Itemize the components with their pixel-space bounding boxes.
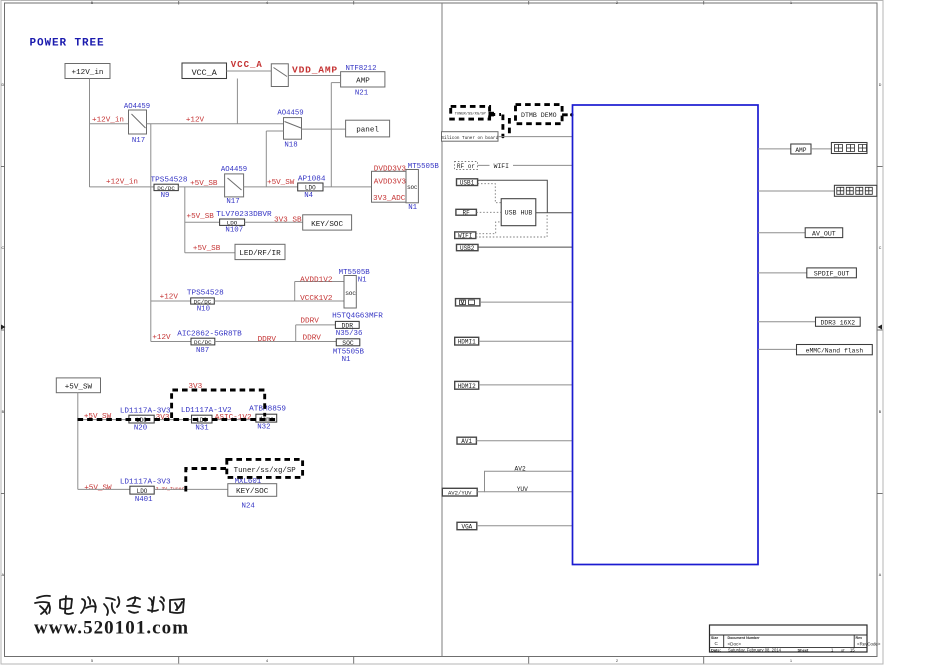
svg-text:AVDD3V3: AVDD3V3 — [374, 179, 407, 187]
chip N32 ATBM8859 demo — [249, 406, 286, 432]
regulator N87 AIC2862-5GR8TB DC/DC — [177, 331, 242, 355]
wire LAN — [480, 301, 573, 303]
svg-text:panel: panel — [356, 126, 379, 134]
wire +5V_SB branch rail — [185, 187, 235, 253]
block AV_OUT — [805, 228, 843, 238]
port AV1 — [457, 437, 476, 445]
wire WIFI dotted — [476, 222, 501, 234]
block SPDIF_OUT — [807, 268, 857, 278]
svg-text:Size: Size — [711, 636, 718, 640]
block speaker — [831, 143, 867, 154]
svg-text:A: A — [879, 573, 882, 577]
wire AVDD1V2 branch — [295, 282, 345, 302]
svg-text:KEY/SOC: KEY/SOC — [311, 221, 343, 229]
wire VGA — [477, 525, 573, 527]
wire +5V_SW row — [78, 419, 256, 421]
wire to eMMC — [758, 348, 797, 350]
svg-text:N17: N17 — [132, 137, 145, 145]
center fold marks — [1, 325, 6, 330]
svg-text:5: 5 — [91, 659, 93, 663]
svg-text:N21: N21 — [355, 90, 369, 98]
svg-text:TLV70233DBVR: TLV70233DBVR — [216, 211, 272, 219]
port VCC_A — [182, 63, 227, 79]
svg-text:www.520101.com: www.520101.com — [34, 618, 189, 639]
block Tuner/ss/xg/SP highlight — [227, 459, 303, 477]
svg-text:KEY/SOC: KEY/SOC — [236, 488, 269, 496]
svg-text:LD1117A-3V3: LD1117A-3V3 — [120, 478, 171, 486]
wire N18 to panel — [302, 128, 346, 130]
svg-text:VCC_A: VCC_A — [192, 68, 218, 78]
svg-text:B: B — [879, 410, 882, 414]
port +5V_SW — [56, 378, 100, 393]
wire HDMI1 — [479, 340, 573, 342]
svg-text:RF: RF — [462, 209, 470, 216]
svg-text:15: 15 — [850, 647, 855, 652]
svg-text:VCC_A: VCC_A — [231, 60, 263, 70]
svg-text:C: C — [715, 641, 719, 646]
svg-text:3V3_SB: 3V3_SB — [274, 217, 302, 225]
svg-text:C: C — [879, 246, 882, 250]
wire +12V — [147, 123, 284, 125]
port HDMI2 — [455, 381, 479, 389]
port USB2 — [457, 244, 479, 252]
svg-text:N31: N31 — [195, 425, 209, 433]
wire AV1 — [476, 440, 572, 442]
svg-text:N35/36: N35/36 — [336, 330, 363, 338]
svg-text:LDO: LDO — [137, 488, 148, 495]
svg-text:AP1084: AP1084 — [298, 175, 326, 183]
wire to AMP — [288, 75, 340, 77]
wire DDRV — [215, 341, 336, 343]
wire +5V_SW — [244, 186, 298, 188]
node RF or — [455, 162, 478, 171]
chip SOC3 MT5505B N1 — [333, 339, 365, 364]
svg-text:AMP: AMP — [356, 78, 370, 86]
svg-text:+12V_in: +12V_in — [72, 69, 104, 77]
svg-text:DC/DC: DC/DC — [194, 298, 212, 305]
svg-text:AO4459: AO4459 — [277, 110, 303, 118]
svg-text:+5V_SW: +5V_SW — [267, 179, 295, 187]
wire to N9 — [90, 186, 155, 188]
transistor VDD_AMP switch — [271, 64, 288, 87]
block DDR3 16X2 — [816, 317, 861, 326]
wire USB1 — [478, 180, 548, 212]
wire +5V_SW highlight — [78, 418, 278, 421]
chip main SoC block — [573, 105, 759, 565]
wire +12V_in vertical rail — [89, 79, 91, 188]
chip SOC MT5505B N1 — [372, 163, 440, 212]
wire to headphone — [758, 190, 834, 192]
regulator N4 AP1084 LDO — [298, 175, 326, 200]
svg-text:AO4459: AO4459 — [221, 166, 247, 174]
svg-text:eMMC/Nand flash: eMMC/Nand flash — [806, 347, 864, 354]
svg-text:DDR3 16X2: DDR3 16X2 — [821, 319, 856, 326]
svg-text:N87: N87 — [196, 347, 209, 355]
svg-text:DC/DC: DC/DC — [157, 185, 175, 192]
svg-text:POWER TREE: POWER TREE — [30, 38, 105, 50]
svg-text:USB1: USB1 — [460, 180, 475, 187]
svg-text:1: 1 — [790, 659, 792, 663]
block Silicon Tuner on board — [441, 132, 498, 142]
svg-text:YUV: YUV — [517, 486, 528, 493]
svg-text:2: 2 — [616, 659, 618, 663]
svg-text:SOC: SOC — [342, 340, 354, 347]
svg-text:+5V_SB: +5V_SB — [190, 180, 218, 188]
svg-text:TPS54528: TPS54528 — [187, 289, 224, 297]
regulator N20 LD1117A-3V3 LDO — [120, 408, 171, 433]
svg-text:HDMI1: HDMI1 — [458, 339, 476, 346]
wire to Q N17a — [90, 123, 129, 125]
wire USB2 — [478, 246, 573, 248]
svg-text:+12V: +12V — [152, 334, 171, 342]
wire USB HUB out — [536, 212, 573, 214]
wire to DDR3 — [758, 321, 816, 323]
svg-text:SPDIF_OUT: SPDIF_OUT — [814, 270, 850, 277]
svg-text:DDRV: DDRV — [300, 318, 319, 326]
svg-text:5: 5 — [91, 1, 93, 5]
wire VCCK1V2 — [214, 300, 344, 302]
svg-text:N18: N18 — [284, 141, 297, 149]
svg-text:AV1: AV1 — [461, 438, 472, 445]
block KEY/SOC — [303, 215, 352, 230]
svg-text:C: C — [1, 246, 4, 250]
block DTMB DEMO highlight — [516, 105, 574, 124]
wire tuner highlight connector — [186, 469, 227, 492]
svg-text:DDRV: DDRV — [302, 334, 321, 342]
svg-text:1: 1 — [790, 1, 792, 5]
wire to N401 — [78, 488, 130, 490]
svg-text:AIC2862-5GR8TB: AIC2862-5GR8TB — [177, 331, 242, 339]
wire to N10 — [151, 300, 191, 302]
svg-text:LDO: LDO — [227, 220, 238, 227]
svg-text:N32: N32 — [257, 423, 270, 431]
svg-text:+12V_in: +12V_in — [106, 178, 138, 186]
svg-text:N1: N1 — [358, 276, 367, 284]
regulator N107 TLV70233DBVR LDO — [216, 211, 272, 235]
svg-text:DDRV: DDRV — [258, 336, 277, 344]
svg-text:DC/DC: DC/DC — [194, 339, 212, 346]
svg-text:Document Number: Document Number — [728, 636, 761, 640]
wire AV2 — [477, 471, 572, 492]
svg-text:HDMI2: HDMI2 — [458, 383, 476, 390]
svg-text:AV2: AV2 — [515, 465, 526, 472]
wire to KEY/SOC — [154, 488, 228, 490]
chip DDR H5TQ4G63MFR N35/36 — [332, 313, 383, 339]
svg-text:LDO: LDO — [305, 185, 316, 192]
port USB1 — [457, 179, 478, 187]
svg-text:D: D — [1, 83, 4, 87]
block headphone terminal — [834, 185, 876, 196]
wire to AMP out — [758, 148, 791, 150]
svg-text:<Doc>: <Doc> — [728, 641, 742, 646]
svg-text:DDR: DDR — [342, 323, 354, 330]
transistor N18 AO4459 — [277, 110, 303, 150]
wire highlight to demod — [489, 112, 510, 139]
svg-text:+5V_SB: +5V_SB — [193, 245, 221, 253]
wire tuner to soc — [498, 136, 573, 138]
svg-text:RF or: RF or — [457, 163, 475, 170]
port LAN — [456, 299, 480, 306]
svg-text:D: D — [879, 83, 882, 87]
svg-text:TUNER/SS/XG/SP: TUNER/SS/XG/SP — [455, 112, 487, 117]
svg-text:N20: N20 — [134, 425, 147, 433]
title block — [710, 625, 881, 652]
svg-text:2: 2 — [616, 1, 618, 5]
svg-text:Silicon Tuner on board: Silicon Tuner on board — [441, 136, 498, 141]
svg-text:DVDD3V3: DVDD3V3 — [374, 165, 407, 173]
wire RF dotted — [476, 211, 501, 213]
svg-text:DTMB DEMO: DTMB DEMO — [521, 112, 557, 119]
block AMP NTF8212 N21 — [341, 65, 385, 98]
svg-text:SOC: SOC — [407, 184, 418, 191]
wire DDRV branch up — [296, 325, 336, 342]
svg-text:WIFI: WIFI — [494, 163, 510, 170]
svg-text:+5V_SB: +5V_SB — [187, 213, 215, 221]
svg-text:H5TQ4G63MFR: H5TQ4G63MFR — [332, 313, 383, 321]
svg-text:TPS54528: TPS54528 — [151, 176, 188, 184]
port VGA — [457, 522, 477, 530]
port RF — [456, 209, 477, 216]
svg-text:LED/RF/IR: LED/RF/IR — [239, 250, 281, 258]
wire WIFI dotted alt — [476, 215, 547, 238]
svg-text:N1: N1 — [342, 356, 351, 364]
svg-text:N4: N4 — [304, 192, 313, 200]
regulator N31 LD1117A-1V2 LDO — [181, 407, 232, 433]
block eMMC/Nand flash — [797, 345, 873, 355]
wire LDO to SOC — [323, 186, 372, 188]
svg-text:Rev: Rev — [856, 636, 863, 640]
svg-text:VGA: VGA — [461, 523, 472, 530]
block USB HUB — [501, 199, 536, 226]
svg-text:USB HUB: USB HUB — [505, 210, 533, 217]
port HDMI1 — [455, 337, 479, 345]
svg-text:+5V_SW: +5V_SW — [84, 485, 112, 493]
svg-text:4: 4 — [266, 1, 268, 5]
wire to AV_OUT — [758, 232, 805, 234]
svg-text:AMP: AMP — [795, 147, 806, 154]
page divider — [441, 3, 443, 657]
svg-text:AVDD1V2: AVDD1V2 — [300, 277, 333, 285]
svg-text:WIFI: WIFI — [458, 233, 472, 240]
block LED/RF/IR — [235, 244, 285, 259]
svg-text:AV2/YUV: AV2/YUV — [448, 490, 472, 497]
block KEY/SOC MXL601 N24 — [228, 478, 277, 510]
svg-text:N401: N401 — [135, 496, 153, 504]
wire 3V3_SB — [245, 221, 303, 223]
port +12V_in — [65, 64, 110, 79]
wire +5V_SB — [178, 186, 224, 188]
port WIFI — [455, 232, 476, 240]
svg-text:USB2: USB2 — [460, 245, 475, 252]
svg-text:AV_OUT: AV_OUT — [812, 230, 836, 237]
svg-text:3V3_ADC: 3V3_ADC — [373, 195, 406, 203]
svg-text:Tuner/ss/xg/SP: Tuner/ss/xg/SP — [234, 467, 297, 475]
svg-text:4: 4 — [266, 659, 268, 663]
wire AMP feed down — [331, 83, 340, 187]
wire +12V rail down — [150, 124, 152, 342]
svg-text:N9: N9 — [161, 192, 170, 200]
svg-text:<RevCode>: <RevCode> — [857, 641, 881, 646]
chip SOC2 MT5505B N1 — [339, 269, 371, 308]
svg-text:Saturday, February 08, 2014: Saturday, February 08, 2014 — [728, 647, 782, 652]
net WIFI label — [490, 162, 514, 170]
regulator N401 LD1117A-3V3 LDO — [120, 478, 171, 504]
svg-text:VCCK1V2: VCCK1V2 — [300, 295, 333, 303]
wire USB1 dotted alt — [478, 184, 502, 203]
wire +5V_SW rail — [77, 393, 79, 490]
transistor N17 AO4459 — [124, 103, 150, 145]
svg-text:+12V: +12V — [186, 117, 205, 125]
wire VCC_A drop — [236, 79, 238, 124]
wire HDMI2 — [479, 384, 573, 386]
regulator N9 TPS54528 DC/DC — [151, 176, 188, 200]
block AMP out — [791, 144, 811, 154]
wire RF or WIFI — [478, 164, 573, 166]
svg-text:SOC: SOC — [345, 290, 356, 297]
svg-text:N107: N107 — [225, 227, 243, 235]
svg-text:MXL601: MXL601 — [235, 478, 262, 486]
block panel — [346, 120, 390, 137]
port AV2/YUV — [442, 488, 477, 496]
svg-text:+12V: +12V — [160, 293, 179, 301]
transistor N17b AO4459 — [221, 166, 247, 206]
wire YUV — [485, 491, 573, 493]
wire to SPDIF_OUT — [758, 272, 807, 274]
svg-text:Date:: Date: — [711, 647, 721, 652]
svg-text:ATBM8859: ATBM8859 — [249, 406, 286, 414]
svg-text:+5V_SW: +5V_SW — [65, 384, 93, 392]
wire +12V to N87 — [151, 341, 191, 343]
wire 3V3 highlight loop — [172, 390, 265, 418]
svg-text:Sheet: Sheet — [798, 647, 810, 652]
block tuner highlight small — [451, 106, 490, 119]
watermark 520101 chinese — [35, 596, 184, 615]
svg-text:N17: N17 — [226, 198, 239, 206]
wire AMP to speaker — [811, 148, 831, 150]
svg-text:N24: N24 — [242, 503, 256, 511]
wire VCC_A to Q — [227, 70, 272, 72]
svg-text:N1: N1 — [408, 204, 417, 212]
svg-text:N10: N10 — [197, 306, 210, 314]
svg-text:VDD_AMP: VDD_AMP — [292, 65, 338, 76]
regulator N10 TPS54528 DC/DC — [187, 289, 224, 313]
wire N18 source down — [266, 131, 283, 187]
